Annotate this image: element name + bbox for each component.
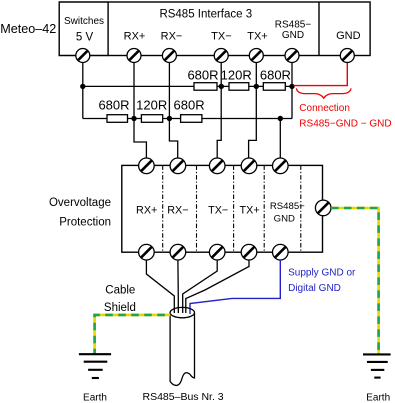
svg-text:RS485–Bus Nr. 3: RS485–Bus Nr. 3 [143, 391, 224, 403]
wire row2 bus [83, 118, 292, 120]
wire blue supply gnd [190, 260, 280, 314]
resistor R2 120R [229, 83, 249, 91]
brace red [296, 88, 351, 98]
resistor R4 680R [107, 115, 128, 123]
wire cable w1 [146, 260, 174, 313]
resistor R1 680R [194, 83, 217, 91]
svg-text:RS485−: RS485− [270, 201, 305, 212]
svg-text:RS485−: RS485− [275, 20, 312, 31]
resistor R3 680R [263, 83, 285, 91]
terminal TX- top [214, 49, 228, 63]
terminal OVP2 top [170, 158, 186, 174]
wire 5V drop [82, 56, 84, 119]
svg-text:680R: 680R [98, 98, 129, 113]
svg-text:Digital GND: Digital GND [288, 283, 341, 294]
node row1 5V [80, 84, 85, 89]
svg-text:RX−: RX− [161, 31, 183, 43]
terminal OVP5 top [273, 158, 289, 174]
box RS485 Interface 3 [108, 2, 370, 56]
resistor R6 680R [181, 115, 202, 123]
terminal OVP5 bottom [273, 244, 289, 260]
terminal OVP4 top [241, 158, 257, 174]
svg-text:TX+: TX+ [240, 204, 260, 216]
svg-text:Earth: Earth [83, 393, 107, 403]
terminal OVP3 bottom [209, 244, 225, 260]
divider OVP 3 [233, 165, 235, 252]
svg-text:Shield: Shield [104, 302, 136, 314]
svg-text:TX−: TX− [208, 204, 228, 216]
divider OVP 2 [196, 165, 198, 252]
node row2 RX- [167, 116, 172, 121]
terminal GND top [340, 49, 354, 63]
node row1 TX- [219, 84, 224, 89]
wire OVP5 feed [279, 119, 281, 159]
terminal RX+ top [127, 49, 141, 63]
divider GND compartment [318, 2, 320, 56]
svg-text:RX+: RX+ [136, 204, 157, 216]
svg-text:TX−: TX− [211, 31, 231, 43]
ground earth right [363, 354, 391, 377]
node row1 TX+ [254, 84, 259, 89]
wire cable w4 [186, 260, 249, 313]
svg-text:680R: 680R [187, 68, 218, 83]
terminal OVP2 bottom [170, 244, 186, 260]
box Switches 5V [59, 2, 108, 56]
svg-text:120R: 120R [221, 68, 252, 83]
svg-text:Connection: Connection [299, 103, 350, 114]
svg-text:Supply GND or: Supply GND or [288, 267, 356, 278]
svg-text:5 V: 5 V [76, 32, 94, 44]
terminal OVP3 top [209, 158, 225, 174]
svg-text:680R: 680R [260, 68, 291, 83]
wire cable w3 [183, 260, 218, 313]
svg-text:TX+: TX+ [247, 31, 267, 43]
terminal RS485-GND top [285, 49, 299, 63]
ground earth left [79, 354, 111, 378]
terminal OVP1 top [139, 158, 155, 174]
divider OVP 1 [162, 165, 164, 252]
svg-text:RX+: RX+ [124, 31, 146, 43]
resistor R5 120R [141, 115, 162, 123]
terminal 5V [76, 49, 90, 63]
node row1 RS485-GND [289, 84, 294, 89]
wire cable w2 [177, 260, 179, 313]
svg-text:Switches: Switches [64, 16, 104, 27]
cable mouth ellipse [170, 307, 194, 317]
terminal OVP side earth [315, 200, 331, 216]
svg-text:GND: GND [282, 30, 304, 41]
svg-text:120R: 120R [136, 98, 167, 113]
wire RS485-GND drop [291, 56, 293, 119]
wire earth right yellow [331, 208, 379, 354]
wire RX- drop [169, 56, 177, 159]
box Overvoltage Protection [122, 165, 323, 252]
terminal RX- top [162, 49, 176, 63]
svg-text:GND: GND [274, 213, 295, 224]
divider OVP 4 [263, 165, 265, 252]
wire TX- drop [217, 56, 221, 159]
svg-text:Meteo–42: Meteo–42 [0, 22, 56, 36]
wire shield left green dashes [95, 315, 171, 354]
svg-text:Overvoltage: Overvoltage [49, 197, 111, 209]
svg-text:680R: 680R [174, 98, 205, 113]
wire shield left yellow [95, 315, 171, 354]
terminal OVP1 bottom [139, 244, 155, 260]
svg-text:GND: GND [336, 30, 361, 42]
wire RX+ drop [134, 56, 146, 159]
svg-text:Cable: Cable [105, 284, 135, 296]
wire red GND link [294, 63, 348, 86]
svg-text:RX−: RX− [167, 204, 188, 216]
node row2 OVP5 [278, 116, 283, 121]
svg-text:Protection: Protection [59, 217, 111, 229]
terminal TX+ top [249, 49, 263, 63]
svg-text:RS485 Interface 3: RS485 Interface 3 [159, 9, 252, 21]
divider OVP 5 [300, 165, 302, 252]
svg-text:Earth: Earth [366, 393, 390, 403]
wire earth right green dashes [331, 208, 379, 354]
cable body [170, 313, 194, 385]
wire row1 bus [83, 85, 292, 87]
svg-text:RS485−GND − GND: RS485−GND − GND [299, 119, 391, 130]
wire TX+ drop [249, 56, 257, 159]
terminal OVP4 bottom [241, 244, 257, 260]
node row2 RX+ [131, 116, 136, 121]
